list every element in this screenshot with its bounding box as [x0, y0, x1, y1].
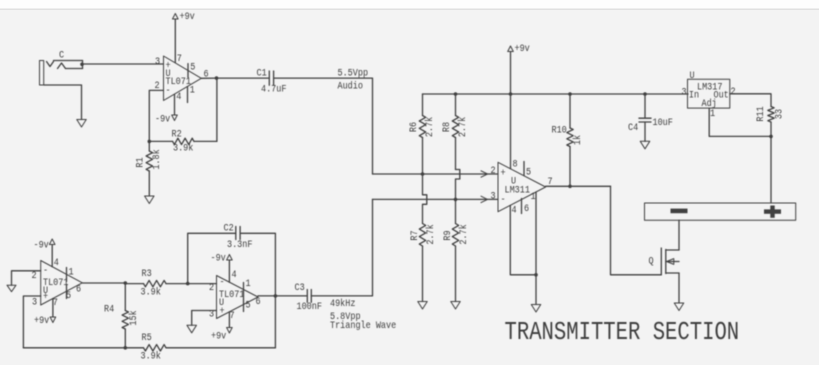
svg-text:100nF: 100nF: [297, 300, 322, 312]
wire output to MOSFET gate: [611, 186, 662, 274]
wire U2 output: [82, 282, 125, 284]
wire +9V to rail: [510, 52, 512, 95]
resistor R3 3.9k: [125, 267, 216, 297]
resistor R11 33: [754, 106, 784, 136]
svg-text:2.7k: 2.7k: [424, 224, 436, 245]
svg-text:7: 7: [177, 52, 182, 64]
pin 5 stub U1: [187, 64, 189, 78]
ground: [451, 302, 461, 310]
svg-text:R8: R8: [440, 122, 452, 132]
ground: [640, 141, 650, 149]
svg-text:+9v: +9v: [515, 42, 531, 54]
power +9V: [34, 314, 56, 326]
svg-text:4: 4: [511, 204, 516, 216]
svg-text:C4: C4: [628, 121, 639, 133]
wire C3 to triangle node: [311, 199, 372, 296]
capacitor C3 100nF: [295, 281, 322, 312]
svg-text:4.7uF: 4.7uF: [261, 83, 286, 95]
svg-text:+: +: [501, 167, 506, 179]
op-amp U3 TL071: [209, 268, 261, 321]
wire C2 to U3 output: [240, 233, 275, 296]
svg-text:R5: R5: [142, 331, 152, 343]
svg-text:3: 3: [155, 55, 160, 67]
svg-text:1: 1: [531, 190, 536, 202]
wire U3 pin 7 to +9V: [228, 312, 230, 328]
wire jack sleeve to ground: [44, 85, 82, 120]
svg-text:+9v: +9v: [211, 330, 227, 342]
capacitor C1 4.7uF: [257, 67, 287, 95]
power +9V: [211, 328, 232, 342]
wire U3 pin 4 to -9V: [228, 260, 230, 282]
svg-text:10uF: 10uF: [653, 116, 673, 128]
node R10 output junction: [568, 185, 572, 189]
svg-text:3: 3: [32, 296, 37, 308]
svg-text:TRANSMITTER SECTION: TRANSMITTER SECTION: [505, 318, 740, 347]
svg-text:6: 6: [524, 202, 529, 214]
ground: [145, 196, 155, 204]
node R4 bottom junction: [124, 346, 128, 350]
svg-text:4: 4: [54, 256, 59, 268]
wire Q source to ground: [678, 273, 680, 303]
svg-text:+9v: +9v: [180, 10, 196, 22]
svg-text:3.9k: 3.9k: [141, 350, 162, 362]
wire U1 pin 7 to +9V: [174, 19, 176, 63]
svg-text:3.9k: 3.9k: [173, 142, 194, 154]
pin 6 stub U4: [521, 199, 523, 214]
svg-text:C1: C1: [257, 67, 268, 79]
svg-text:R1: R1: [134, 157, 146, 168]
pin 1 stub U1: [187, 87, 189, 103]
svg-text:1: 1: [710, 107, 715, 119]
svg-text:1k: 1k: [571, 135, 583, 146]
resistor R9 2.7k: [441, 199, 469, 301]
wire R2 to U1 output: [216, 78, 218, 141]
wire U5 out to R11: [730, 94, 771, 107]
svg-text:C2: C2: [224, 222, 234, 234]
node jack tip junction: [80, 63, 84, 67]
wire U1 pin 4 to -9V: [174, 94, 176, 115]
svg-text:4: 4: [176, 90, 181, 102]
wire U2 pin 3 feedback: [23, 296, 40, 348]
resistor R6 2.7k: [407, 94, 435, 174]
svg-text:3: 3: [490, 190, 495, 202]
svg-text:Triangle Wave: Triangle Wave: [330, 319, 396, 331]
wire U2 pin 4 to -9V: [51, 245, 53, 267]
connector C (audio jack): [40, 49, 83, 85]
wire U2 pin 7 to +9V: [52, 299, 54, 318]
resistor R1 1.8k: [134, 141, 162, 196]
svg-text:5.5Vpp: 5.5Vpp: [338, 67, 369, 79]
wire U4 pin 4 to ground rail: [510, 205, 536, 274]
resistor R7 2.7k: [408, 224, 436, 302]
node pin1/pin4 junction: [534, 273, 538, 277]
wire U1 pin 2 feedback: [149, 90, 163, 141]
top white strip: [0, 0, 819, 9]
ground: [418, 302, 428, 310]
power +9V: [508, 42, 530, 54]
svg-text:1: 1: [69, 266, 74, 278]
svg-text:3: 3: [209, 308, 214, 320]
svg-text:C: C: [59, 49, 64, 61]
wire to C1: [217, 77, 270, 79]
resistor R10 1k: [552, 94, 584, 186]
svg-text:Q: Q: [649, 255, 654, 267]
svg-text:3.3nF: 3.3nF: [227, 238, 252, 250]
svg-text:5: 5: [246, 299, 251, 311]
node R9 to pin3 line: [454, 198, 458, 202]
svg-text:-: -: [43, 264, 48, 276]
svg-text:+9v: +9v: [34, 314, 50, 326]
wire R8-R9 with hop over pin2 line: [456, 170, 460, 200]
node U2 output junction: [124, 281, 128, 285]
wire bottom feedback: [23, 347, 143, 349]
svg-text:+: +: [43, 290, 48, 302]
transducer element: [645, 203, 796, 220]
svg-text:Audio: Audio: [338, 80, 363, 92]
svg-text:1: 1: [190, 84, 195, 96]
power +9V: [173, 10, 196, 22]
svg-text:1.8k: 1.8k: [150, 149, 162, 170]
svg-text:R4: R4: [104, 303, 115, 315]
pin 5 stub U3: [243, 298, 245, 312]
svg-text:-: -: [166, 84, 171, 96]
svg-text:2: 2: [155, 79, 160, 91]
ground: [531, 305, 541, 313]
svg-text:2.7k: 2.7k: [457, 224, 469, 245]
svg-text:5: 5: [190, 61, 195, 73]
wire rail to U4 pin 8: [510, 94, 512, 169]
node feedback junction: [148, 140, 152, 144]
wire +9V rail: [423, 93, 689, 95]
ground: [7, 285, 16, 292]
arrow into pin 3: [481, 196, 488, 202]
svg-text:R6: R6: [407, 122, 419, 132]
regulator U5 LM317: [682, 69, 736, 119]
svg-text:R11: R11: [754, 106, 766, 122]
pin 5 stub U2: [66, 285, 68, 299]
wire U4 output pin 7: [546, 185, 611, 187]
svg-text:7: 7: [230, 309, 235, 321]
pin 1 stub U3: [243, 283, 245, 297]
svg-text:2.7k: 2.7k: [423, 116, 435, 137]
op-amp U2 TL071: [31, 256, 82, 308]
pin 5 stub U4: [523, 162, 525, 176]
wire U3 output: [258, 295, 307, 297]
wire C1 to audio node: [274, 78, 373, 174]
svg-text:7: 7: [548, 175, 553, 187]
svg-text:3: 3: [682, 86, 687, 98]
power -9V: [34, 239, 56, 251]
resistor R8 2.7k: [440, 94, 468, 170]
svg-text:2.7k: 2.7k: [456, 116, 468, 137]
svg-text:49kHz: 49kHz: [330, 297, 355, 309]
svg-text:U: U: [690, 69, 695, 81]
resistor R5 3.9k: [141, 331, 276, 361]
svg-text:5: 5: [66, 289, 71, 301]
svg-text:2: 2: [490, 164, 495, 176]
svg-text:R9: R9: [441, 230, 453, 240]
wire C2 branch: [188, 233, 236, 283]
svg-text:R3: R3: [142, 267, 152, 279]
pin 1 stub U2: [66, 268, 68, 282]
svg-text:3.9k: 3.9k: [141, 286, 162, 298]
capacitor C2 3.3nF: [224, 222, 253, 250]
svg-text:-9v: -9v: [155, 113, 171, 125]
wire U1 output: [201, 77, 216, 79]
net label 49kHz 5.8Vpp Triangle Wave: [330, 297, 396, 331]
capacitor C4 10uF: [628, 94, 673, 141]
node U1 output junction: [215, 76, 219, 80]
svg-text:LM311: LM311: [505, 184, 531, 196]
node R10 rail junction: [568, 92, 572, 96]
wire U2 pin 2 to ground: [12, 271, 41, 285]
svg-text:-: -: [220, 276, 225, 288]
ground: [674, 303, 684, 311]
wire R5 up to U3 output: [274, 296, 276, 348]
resistor R4 15k: [104, 283, 139, 348]
svg-text:R7: R7: [408, 230, 420, 240]
wire R11 to transducer +: [770, 136, 772, 203]
svg-text:7: 7: [53, 296, 58, 308]
wire U4 pin 1 to ground: [535, 192, 537, 305]
wire U5 adj: [709, 108, 771, 136]
transistor Q: [649, 248, 680, 275]
wire jack to U1 pin 3: [82, 63, 164, 65]
node R8 rail junction: [454, 92, 458, 96]
wire U3 pin 3 to ground: [192, 311, 217, 326]
svg-text:C3: C3: [295, 281, 305, 293]
node U3 output junction: [274, 294, 278, 298]
svg-text:6: 6: [256, 295, 261, 307]
power -9V: [211, 252, 233, 264]
wire triangle to U4 pin 3: [373, 198, 499, 200]
svg-text:R10: R10: [552, 124, 567, 136]
power -9V: [155, 113, 177, 125]
svg-text:15k: 15k: [127, 310, 139, 326]
comparator U4 LM311: [498, 158, 553, 216]
op-amp U1 TL071: [155, 52, 209, 102]
svg-text:4: 4: [232, 268, 237, 280]
svg-text:-9v: -9v: [34, 239, 50, 251]
svg-text:1: 1: [246, 277, 251, 289]
node +9V rail junction: [509, 92, 513, 96]
svg-text:8: 8: [513, 158, 518, 170]
net label 5.5Vpp Audio: [338, 67, 369, 92]
svg-text:R2: R2: [172, 128, 182, 140]
svg-text:5: 5: [526, 166, 531, 178]
svg-text:33: 33: [773, 109, 785, 119]
ground: [77, 120, 87, 128]
svg-text:In: In: [689, 89, 699, 101]
svg-text:+: +: [220, 305, 225, 317]
wire audio to U4 pin 2: [373, 173, 499, 175]
arrow into pin 2: [481, 171, 488, 177]
svg-text:-9v: -9v: [211, 252, 227, 264]
ground: [187, 325, 197, 333]
resistor R2 3.9k: [149, 128, 217, 154]
svg-text:2: 2: [731, 85, 736, 97]
svg-text:2: 2: [209, 281, 214, 293]
node R11 adj junction: [769, 135, 773, 139]
wire transducer - to Q drain: [678, 220, 680, 250]
svg-text:6: 6: [76, 283, 81, 295]
node C4 rail junction: [643, 92, 647, 96]
node R6 to pin2 line: [421, 172, 425, 176]
node R3 C2 junction: [186, 282, 190, 286]
title TRANSMITTER SECTION: [505, 318, 740, 347]
wire R6-R7 with hop over pin3 line: [423, 174, 427, 224]
